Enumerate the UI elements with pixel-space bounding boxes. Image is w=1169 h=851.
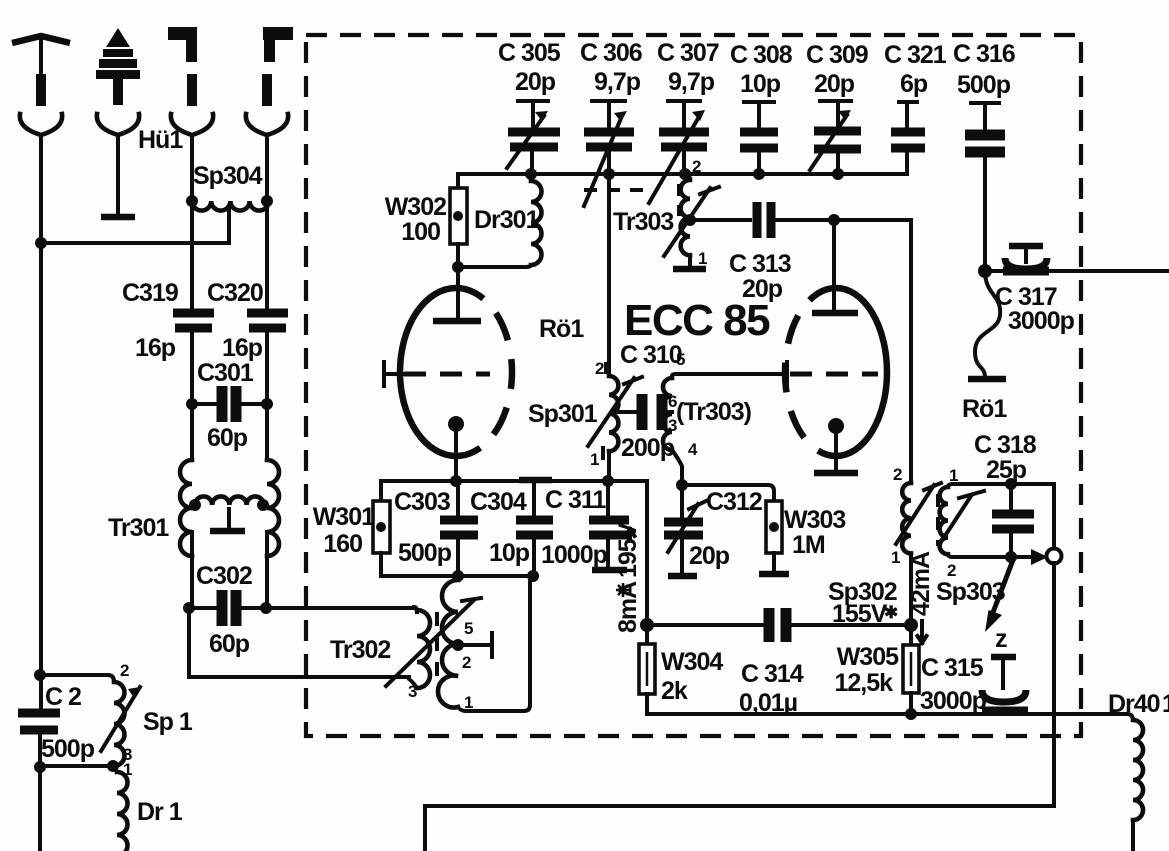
wire antenna column lower <box>34 243 46 711</box>
svg-text:2: 2 <box>120 661 129 680</box>
wire S3 down <box>190 136 194 309</box>
trimmer capacitor C312 <box>664 485 706 576</box>
svg-text:Rö1: Rö1 <box>539 315 584 343</box>
label C318 <box>974 431 1037 484</box>
label Hü1 <box>138 126 183 154</box>
label C307 <box>657 39 719 96</box>
svg-text:16p: 16p <box>135 334 176 362</box>
svg-text:1: 1 <box>891 548 900 567</box>
label 500p C2 <box>41 735 95 763</box>
gang dashes Tr303 <box>677 184 681 216</box>
socket jack Hü1 <box>97 114 139 217</box>
capacitor C302 <box>183 590 272 626</box>
cathode rail node <box>381 475 647 487</box>
label C311 <box>541 486 608 569</box>
label C315 <box>920 654 987 715</box>
node W304 top <box>640 618 654 632</box>
transformer Tr302 secondary coil <box>438 580 458 708</box>
gang line dashed C306 C307 <box>584 188 652 192</box>
label 1 Sp1 <box>123 745 132 779</box>
svg-text:C 307: C 307 <box>657 39 719 67</box>
svg-text:C304: C304 <box>470 488 527 516</box>
variable inductor Sp301 <box>609 376 618 481</box>
heater curve to Rö1 <box>968 271 1006 379</box>
label Tr303 osc <box>613 208 673 236</box>
wire C318 top rail <box>953 478 1054 548</box>
transformer Tr301 left coil <box>180 460 192 556</box>
wire Tr301 to C302 <box>192 532 267 608</box>
label 200p <box>621 434 675 462</box>
wire Sp302 column <box>909 220 913 483</box>
label W305 <box>834 643 899 697</box>
label W301 <box>313 503 375 558</box>
svg-text:W302: W302 <box>385 193 446 221</box>
svg-text:Dr40: Dr40 <box>1108 690 1160 718</box>
wire cathode rail corner down <box>645 481 649 625</box>
svg-text:160: 160 <box>323 530 362 558</box>
inductor Dr301 <box>452 174 542 273</box>
label 2 Sp302 <box>893 465 902 484</box>
tap Tr302 pin 5 <box>452 633 492 657</box>
svg-text:ECC 85: ECC 85 <box>624 296 770 345</box>
label 2 Sp301 <box>595 359 606 378</box>
wire S4 down <box>265 136 269 309</box>
svg-text:2k: 2k <box>661 677 688 705</box>
inductor Dr1 <box>117 772 128 851</box>
label Dr401 <box>1108 690 1169 718</box>
label C320 <box>207 279 263 307</box>
svg-text:C319: C319 <box>122 279 178 307</box>
wire node to W303 <box>682 485 774 501</box>
inductor Tr303 secondary <box>663 374 787 485</box>
capacitor C301 <box>186 386 273 422</box>
svg-text:2: 2 <box>893 465 902 484</box>
wire C318 bottom rail <box>953 549 1048 565</box>
svg-text:C 315: C 315 <box>921 654 984 682</box>
label C305 <box>498 39 561 96</box>
svg-text:✱: ✱ <box>884 603 898 622</box>
svg-text:4: 4 <box>688 440 698 459</box>
svg-text:z: z <box>995 625 1007 653</box>
svg-text:Sp304: Sp304 <box>193 162 263 190</box>
label 20p C312 <box>689 542 730 570</box>
feedthrough jack C317 <box>1003 246 1049 271</box>
label Tr302 <box>330 636 390 664</box>
dashed enclosure box <box>306 35 1081 736</box>
svg-text:1: 1 <box>464 693 473 712</box>
capacitor C308 <box>740 102 778 174</box>
svg-text:500p: 500p <box>398 539 452 567</box>
wire Tr302 secondary return <box>458 576 530 711</box>
wire mid rail <box>647 623 911 627</box>
label 3 Tr302 primary <box>408 682 417 701</box>
antenna A1 symbol <box>12 36 70 106</box>
label 2 Tr302 <box>462 653 471 672</box>
rotated label 8mA 195V <box>614 522 642 633</box>
svg-text:Tr301: Tr301 <box>108 514 169 542</box>
svg-text:C 313: C 313 <box>729 250 791 278</box>
label 1 Sp301 <box>590 448 603 469</box>
transformer Tr302 primary coil <box>409 607 430 688</box>
trimmer capacitor C305 <box>507 101 560 174</box>
output terminal circle <box>1047 549 1062 564</box>
svg-text:C301: C301 <box>197 359 254 387</box>
svg-text:20p: 20p <box>689 542 730 570</box>
wire C313 to anode node <box>775 214 911 226</box>
svg-text:60p: 60p <box>209 630 250 658</box>
arrow Sp303 slider <box>941 491 984 542</box>
svg-text:C 305: C 305 <box>498 39 561 67</box>
svg-text:20p: 20p <box>814 70 855 98</box>
transformer Tr301 right coil <box>267 460 279 556</box>
capacitor C303 <box>440 481 478 576</box>
label Rö1 right <box>962 395 1007 423</box>
transformer Tr302 core dashes <box>435 612 439 680</box>
wire Sp301 column from C306 <box>607 174 611 376</box>
svg-text:9,7p: 9,7p <box>668 68 715 96</box>
wire IF out top rail <box>985 269 1169 273</box>
inductor Sp1 <box>114 682 125 766</box>
svg-text:16p: 16p <box>222 334 263 362</box>
label 16p left <box>135 334 176 362</box>
svg-text:Sp 1: Sp 1 <box>143 708 193 736</box>
svg-text:500p: 500p <box>957 71 1011 99</box>
wire Tr303 tap to C313 <box>690 218 750 222</box>
svg-text:(Tr303): (Tr303) <box>676 398 752 426</box>
svg-text:C 308: C 308 <box>730 41 793 69</box>
variable arrow Sp1 <box>101 687 140 751</box>
socket jack S3 <box>171 114 213 135</box>
svg-text:W304: W304 <box>661 648 723 676</box>
tube1 grid <box>384 362 490 386</box>
svg-text:C320: C320 <box>207 279 263 307</box>
capacitor C2 <box>18 713 60 773</box>
svg-text:Sp301: Sp301 <box>528 400 598 428</box>
label C317 <box>995 283 1075 335</box>
svg-text:42mA: 42mA <box>907 551 935 616</box>
label 4 pin <box>688 440 698 459</box>
arrow Sp302 <box>896 483 941 544</box>
svg-text:9,7p: 9,7p <box>594 68 641 96</box>
svg-text:1000p: 1000p <box>541 541 608 569</box>
capacitor C318 <box>992 484 1034 557</box>
plug P3 <box>168 27 197 106</box>
feedthrough jack C315 <box>982 657 1028 711</box>
svg-text:C 321: C 321 <box>884 41 947 69</box>
svg-text:12,5k: 12,5k <box>834 669 893 697</box>
svg-text:Dr 1: Dr 1 <box>137 798 183 826</box>
wire oscillator column down <box>909 220 913 483</box>
svg-text:C 311: C 311 <box>545 486 606 514</box>
wire C2 top to Sp1 <box>40 675 114 682</box>
svg-text:20p: 20p <box>515 68 556 96</box>
label C313 <box>729 250 791 303</box>
inductor Dr401 <box>1127 714 1143 851</box>
label C319 <box>122 279 178 307</box>
svg-text:10p: 10p <box>489 539 530 567</box>
svg-text:W301: W301 <box>313 503 375 531</box>
trimmer capacitor C309 <box>810 101 861 174</box>
label W303 <box>784 506 845 559</box>
tube Rö1 triode 2 envelope <box>785 288 887 456</box>
label 1 Tr302 <box>464 693 473 712</box>
svg-text:60p: 60p <box>207 424 248 452</box>
socket jack S4 <box>246 114 288 135</box>
label 60p lower <box>209 630 250 658</box>
arrow Tr303 <box>664 187 719 256</box>
node C316 junction <box>978 264 992 278</box>
label Sp302 <box>828 578 898 628</box>
label C302 <box>196 562 252 590</box>
gang dashes Sp302 Sp303 <box>936 494 940 546</box>
capacitor C304 feedthrough <box>516 480 553 576</box>
label C308 <box>730 41 793 98</box>
resistor W305 <box>903 618 919 720</box>
label 60p upper <box>207 424 248 452</box>
tube1 anode <box>433 267 481 321</box>
bottom ground rail <box>647 712 1127 716</box>
label Sp304 <box>193 162 263 190</box>
svg-text:W305: W305 <box>837 643 899 671</box>
label 2 Tr303 <box>692 157 701 176</box>
svg-text:3000p: 3000p <box>1008 307 1075 335</box>
label C309 <box>806 41 868 98</box>
inductor Sp304 <box>186 195 273 211</box>
svg-text:1: 1 <box>1162 690 1169 718</box>
svg-text:2: 2 <box>462 653 471 672</box>
tube2 cathode <box>814 418 858 473</box>
tube Rö1 triode 1 envelope <box>400 288 512 456</box>
svg-text:C312: C312 <box>706 488 762 516</box>
label (Tr303) <box>676 398 752 426</box>
label Sp303 <box>936 578 1005 606</box>
label C316 <box>953 40 1015 99</box>
svg-text:C303: C303 <box>394 488 450 516</box>
svg-text:C 318: C 318 <box>974 431 1037 459</box>
capacitor C311 feedthrough <box>589 481 629 570</box>
svg-text:C 2: C 2 <box>45 683 81 711</box>
label C2 <box>45 683 81 711</box>
tube1 cathode <box>448 416 464 481</box>
svg-text:5: 5 <box>464 619 473 638</box>
label C310 <box>620 341 685 369</box>
svg-text:155V: 155V <box>832 600 888 628</box>
svg-text:C 310: C 310 <box>620 341 682 369</box>
label 2 Sp303 <box>947 561 956 580</box>
svg-text:1: 1 <box>698 249 707 268</box>
svg-text:C 306: C 306 <box>580 39 642 67</box>
svg-text:100: 100 <box>401 218 440 246</box>
label 6 pin <box>668 392 677 411</box>
capacitor C313 <box>757 202 771 238</box>
label C312 <box>706 488 762 516</box>
tube2 grid <box>787 362 878 388</box>
variable inductor Tr303 <box>673 174 706 269</box>
svg-text:1M: 1M <box>792 531 825 559</box>
rotated label 42mA <box>907 551 935 643</box>
label 1 Tr303 <box>698 249 707 268</box>
svg-text:2: 2 <box>595 359 604 378</box>
label C303 <box>394 488 452 567</box>
bottom rail C303 C304 <box>381 570 539 582</box>
label W302 <box>385 193 446 246</box>
wire antenna column to bottom edge <box>38 767 42 851</box>
label C321 <box>884 41 947 98</box>
svg-text:3: 3 <box>408 682 417 701</box>
label Dr301 <box>474 206 540 234</box>
variable inductor Sp303 <box>940 484 953 557</box>
label Tr301 <box>108 514 169 542</box>
svg-text:2: 2 <box>692 157 701 176</box>
tube2 anode <box>812 220 858 313</box>
capacitor C319 <box>173 313 214 404</box>
svg-text:10p: 10p <box>740 70 781 98</box>
svg-text:3000p: 3000p <box>920 687 987 715</box>
label 2 Sp1 <box>120 661 129 680</box>
svg-text:1: 1 <box>590 450 599 469</box>
resistor W301 <box>373 481 390 576</box>
arrow Z indicator <box>985 560 1013 653</box>
label 5 Tr302 <box>464 619 473 638</box>
capacitor C320 <box>247 313 288 404</box>
label Sp301 <box>528 400 598 428</box>
label Rö1 tube1 <box>539 315 584 343</box>
capacitor C314 <box>769 608 786 642</box>
socket jack for A1 <box>20 114 62 243</box>
label 1 Sp302 <box>891 548 900 567</box>
svg-text:C 314: C 314 <box>741 660 804 688</box>
capacitor C310 <box>618 394 672 430</box>
node Tr303 bottom <box>676 479 688 491</box>
label 16p right <box>222 334 263 362</box>
resistor W304 <box>639 625 655 714</box>
label Sp 1 <box>143 708 193 736</box>
wire output down <box>425 563 1054 851</box>
svg-text:500p: 500p <box>41 735 95 763</box>
label W304 <box>661 648 723 705</box>
svg-text:C 309: C 309 <box>806 41 868 69</box>
svg-text:25p: 25p <box>986 456 1027 484</box>
plug P4 <box>262 27 293 106</box>
variable inductor Sp302 <box>902 483 911 625</box>
label C301 <box>197 359 254 387</box>
svg-text:8mA: 8mA <box>614 581 642 633</box>
wire Sp1 bottom to C2 bottom <box>40 760 119 772</box>
arrow Tr302 <box>386 598 481 686</box>
trimmer capacitor C306 <box>584 101 634 206</box>
capacitor C321 <box>891 102 925 174</box>
svg-text:5: 5 <box>676 350 685 369</box>
wire C302 right to Tr302 primary <box>267 606 414 610</box>
svg-text:6p: 6p <box>900 70 928 98</box>
svg-text:C302: C302 <box>196 562 252 590</box>
svg-text:Rö1: Rö1 <box>962 395 1007 423</box>
arrow Sp301 <box>588 377 642 446</box>
wire C302 left to bottom rail <box>189 608 409 677</box>
capacitor C316 <box>965 103 1005 271</box>
label C314 <box>739 660 804 717</box>
svg-text:Tr303: Tr303 <box>613 208 673 236</box>
label C306 <box>580 39 642 96</box>
label Dr 1 <box>137 798 183 826</box>
transformer Tr301 middle winding <box>189 496 269 531</box>
bus wire top row <box>458 168 907 180</box>
svg-text:W303: W303 <box>784 506 845 534</box>
svg-text:C 316: C 316 <box>953 40 1015 68</box>
wire Sp304 tap <box>35 206 229 249</box>
label ECC 85 <box>624 296 770 345</box>
label 1 Sp303 <box>949 466 958 485</box>
resistor W302 <box>450 174 467 267</box>
label C304 <box>470 488 530 567</box>
svg-text:Dr301: Dr301 <box>474 206 540 234</box>
label 3 pin <box>668 416 677 435</box>
trimmer capacitor C307 <box>649 101 709 203</box>
antenna A2 earth symbol <box>96 28 140 105</box>
resistor W303 <box>759 501 789 574</box>
wire C301 to Tr301 <box>192 404 267 460</box>
svg-text:Tr302: Tr302 <box>330 636 390 664</box>
